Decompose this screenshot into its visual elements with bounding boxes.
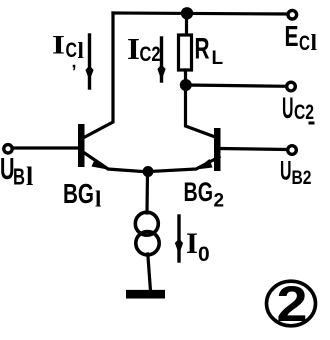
svg-text:B2: B2 (292, 168, 312, 189)
svg-text:I: I (186, 227, 198, 260)
wire: emitter junction to current source (145, 172, 149, 214)
label I_C1 (52, 31, 84, 72)
wire: junction to resistor top (185, 13, 188, 36)
wire: resistor bottom to collector node (184, 70, 187, 85)
label BG1 (63, 178, 101, 212)
wire: BG2 collector (down from node, diagonal to bar) (186, 85, 216, 137)
wire: BG1 collector (down from rail, diagonal to bar) (83, 13, 113, 138)
svg-text:I: I (127, 31, 140, 66)
label U_B1 (0, 151, 33, 191)
node: collector junction dot (180, 79, 192, 91)
svg-text:l: l (26, 162, 33, 191)
wire: UB1 terminal to BG1 base (12, 146, 79, 149)
svg-text:E: E (285, 21, 299, 53)
svg-text:B: B (13, 163, 25, 189)
svg-text:0: 0 (198, 243, 210, 266)
current arrow I_0 (175, 216, 183, 261)
terminal U_C2 (287, 82, 296, 91)
svg-text:l: l (311, 30, 318, 56)
terminal U_B1 (4, 145, 12, 153)
svg-text:,: , (72, 52, 77, 72)
svg-text:2: 2 (214, 191, 225, 212)
terminal E_C1 (288, 10, 297, 19)
svg-text:BG: BG (63, 178, 94, 209)
svg-text:U: U (280, 156, 292, 186)
resistor RL (179, 35, 192, 70)
transistor BG1 (78, 124, 149, 172)
label BG2 (184, 177, 225, 212)
label E_C1 (285, 21, 318, 56)
svg-text:L: L (212, 48, 224, 69)
terminal U_B2 (288, 146, 297, 155)
svg-text:I: I (52, 31, 65, 60)
current source I0 (135, 212, 159, 255)
svg-text:C: C (299, 31, 310, 55)
current arrow I_C2 (157, 38, 165, 81)
svg-text:R: R (195, 33, 210, 66)
wire: current source to ground (148, 254, 151, 291)
svg-text:2: 2 (277, 275, 308, 332)
svg-text:l: l (95, 187, 101, 212)
wire: top supply rail (113, 13, 288, 14)
label I_0 (186, 227, 210, 266)
current arrow I_C1 (85, 35, 93, 88)
label U_B2 (280, 156, 312, 190)
label U_C2 (282, 92, 314, 125)
svg-text:BG: BG (184, 177, 214, 207)
wire: BG2 base to UB2 terminal (220, 149, 286, 150)
label I_C2 (127, 31, 161, 66)
wire: collector node to UC2 terminal (186, 85, 286, 86)
label R_L (195, 33, 224, 70)
svg-text:l: l (78, 38, 84, 63)
transistor BG2 (150, 128, 221, 172)
stray mark (scan artifact under U_C2) (309, 122, 315, 125)
figure number 2 (circled) (267, 281, 316, 326)
svg-text:U: U (282, 92, 294, 125)
ground (126, 290, 165, 299)
svg-text:C2: C2 (140, 43, 161, 66)
node: rail/resistor junction dot (181, 7, 193, 19)
svg-text:C2: C2 (294, 101, 314, 124)
node: emitter junction dot (143, 166, 154, 177)
